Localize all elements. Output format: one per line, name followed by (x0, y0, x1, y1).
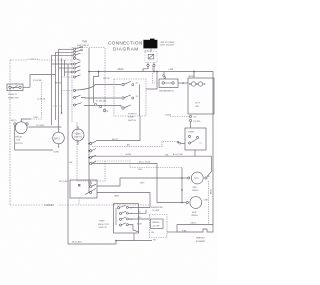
timer contact 10 (73, 103, 121, 107)
wire selector row3 (128, 218, 149, 220)
node bus row3 (71, 63, 73, 65)
scan texture (0, 0, 1, 1)
pb contact 1 (122, 81, 139, 85)
wire connector to start switch (181, 142, 185, 144)
timer contact 9 (73, 95, 121, 98)
connector in start switch lead (177, 141, 179, 143)
push-to-start switch S1 (7, 84, 30, 100)
node start winding feed (181, 202, 183, 204)
motor terminal block MB (188, 78, 214, 114)
wire row to timer 4 (59, 67, 74, 69)
wire timer motor stubs (77, 126, 79, 145)
console dashed border (10, 60, 150, 205)
wire main line jog to relay contacts (94, 72, 99, 104)
wire from switch S1 riser (30, 75, 56, 88)
wire row to timer 5 (65, 71, 74, 73)
fusible link LK1 (163, 69, 174, 78)
node motor bus mid (181, 189, 183, 191)
wire neutral bottom run (68, 241, 152, 245)
wire relay right (28, 126, 61, 128)
node bus row5 (71, 71, 73, 73)
wire neutral dashed vertical (208, 181, 210, 225)
node limiter-motor (182, 82, 184, 84)
node main winding feed (181, 177, 183, 179)
wire terminal to start box (190, 122, 192, 128)
wire plug to fuse (150, 48, 152, 51)
timer motor TM (72, 129, 84, 141)
wire BU W to start box (96, 116, 140, 141)
heating element HE (177, 223, 213, 243)
node bus V4 end (61, 112, 63, 114)
label selector switch (98, 220, 109, 229)
timer cam contact D (90, 161, 96, 164)
wire row to timer 2 (56, 51, 74, 53)
timer internal bus V7 (88, 48, 90, 193)
wire row to timer 1 (59, 48, 74, 50)
wire selector row2 (128, 210, 146, 213)
wire selector row4 (128, 225, 139, 232)
timer contact 6b (73, 70, 80, 73)
wire main line to motor box (193, 72, 195, 78)
wire start switch bottom (194, 150, 196, 156)
wire row to timer 2b (52, 54, 74, 56)
node line bus (153, 71, 155, 73)
wire pb right to riser (146, 72, 157, 90)
timer contact 4 (73, 57, 80, 60)
timer cam contact A (88, 141, 96, 144)
wire bus vertical V4 (61, 58, 63, 113)
wire bus vertical V3 (58, 49, 60, 132)
wire main line L1 (143, 72, 213, 225)
wire bus vertical V5 (64, 60, 66, 76)
thermal fuse F1 (dashed box) (145, 52, 157, 63)
buzzer BZ2 (53, 132, 65, 144)
wire selector row1 (128, 207, 150, 209)
start switch dashed box PB (114, 79, 146, 116)
node main line at riser (156, 71, 158, 73)
pb contact 3 (122, 105, 131, 109)
timer contact 2 (73, 49, 82, 53)
motor terminals below (189, 115, 201, 123)
title CONNECTION DIAGRAM (108, 41, 143, 52)
wire pb internal (139, 85, 141, 117)
wire to start winding (182, 202, 186, 204)
timer contact 1 (73, 46, 82, 50)
label console (27, 57, 39, 61)
timer contact 3 (73, 53, 80, 56)
main winding M1 (188, 172, 207, 192)
node main line at motor stub (193, 71, 195, 73)
wire fuse right to line bus (153, 67, 155, 72)
timer contact 5 (73, 62, 80, 65)
timer contact 6 (73, 66, 80, 69)
start winding M2 (186, 197, 202, 217)
wire dashed row (51, 105, 62, 107)
wire relay top (21, 119, 31, 122)
wire door switch to selector (97, 193, 150, 208)
wire dashed neutral run (95, 161, 182, 168)
wire neutral vertical V6 (67, 64, 69, 244)
relay coil K1 (14, 122, 28, 145)
pb contact 2 (122, 95, 139, 99)
wire to main winding (182, 177, 188, 179)
wire row to timer 7 dashed (62, 76, 74, 78)
wire dashed to motor start switch (92, 141, 177, 146)
timer cam contact B (88, 149, 96, 152)
wire selector bottom riser (133, 234, 135, 241)
wire relay feed dashed (31, 82, 42, 119)
cycling thermostat TC dashed box (150, 206, 168, 242)
wire dashed to motor terminal (170, 116, 189, 118)
wire motor bus vertical (181, 168, 183, 203)
wire fuse left to bus L (89, 67, 148, 72)
timer cam contact C (88, 155, 96, 158)
node main line jog (98, 71, 100, 73)
wire bus vertical V1 (51, 55, 53, 125)
wire thermostat to heater (167, 231, 177, 233)
timer contact 7 (73, 75, 80, 78)
wire row to timer 8 dashed (62, 90, 74, 92)
door switch DS (70, 180, 97, 198)
timer contact 8 with loop to start switch (73, 85, 121, 92)
relay contact M2b (103, 109, 105, 111)
wire door switch ground dash (78, 198, 80, 205)
timer T1 dashed box (72, 48, 105, 182)
power cord plug block P1 (143, 39, 157, 53)
wire row to timer 3 (52, 63, 73, 65)
label cabinet (43, 203, 58, 207)
fuse terminals (147, 63, 155, 67)
node at timer bus (88, 71, 90, 73)
wire relay left down (15, 125, 53, 150)
motor start switch SS (185, 128, 206, 150)
thermal limiter TL (box) (159, 79, 178, 93)
wire fuse to limiter dashed (153, 66, 160, 83)
label push to start (128, 113, 137, 121)
wire bus vertical V2 (55, 52, 57, 120)
wire door switch to motor feed (97, 178, 182, 186)
temp selector switch SEL (114, 204, 139, 233)
wire buzzer bottom (58, 144, 60, 148)
node bottom neutral (115, 240, 117, 242)
wire L2 to motor (92, 156, 212, 176)
relay contact M2a (99, 105, 101, 107)
label timer TMR (77, 42, 90, 47)
label line voltage (160, 41, 175, 47)
wire limiter to motor box (178, 82, 188, 84)
wire L3 to start winding (92, 164, 182, 203)
